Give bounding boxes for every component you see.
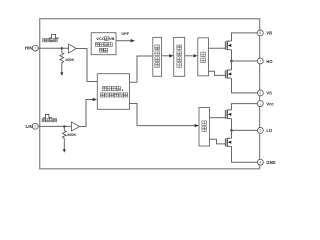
svg-text:GND: GND <box>266 160 275 165</box>
block: VCC/VB undervoltage shutdown protection <box>91 33 116 55</box>
arrow into lock box (LIN path) <box>93 98 97 101</box>
wire pulse-filter to driver <box>185 55 193 57</box>
rail Q3 source to LO node <box>231 119 233 131</box>
ground symbol (R2) <box>63 149 66 152</box>
transistor Q1 (HO upper) <box>224 41 226 50</box>
pin 8 circle (VB) <box>257 30 263 36</box>
svg-text:4: 4 <box>259 161 261 165</box>
label 死区时间电路 line2 <box>100 93 104 97</box>
pin 4 circle (GND) <box>257 159 263 165</box>
svg-text:200K: 200K <box>67 133 76 137</box>
IC outer boundary box <box>40 19 260 169</box>
svg-text:7: 7 <box>259 59 261 63</box>
svg-text:VCC: VCC <box>96 36 105 41</box>
transistor Q4 (LO lower) <box>224 138 226 146</box>
wire Q3 drain to Vcc <box>232 104 258 110</box>
svg-text:OFF: OFF <box>121 31 129 36</box>
comma after line1 <box>122 90 123 91</box>
wire driver to Q4 gate <box>210 139 226 144</box>
svg-text:5: 5 <box>259 129 261 133</box>
label 脉冲滤波 <box>177 45 182 50</box>
block: high-side driver 驱动 <box>198 38 209 76</box>
wire Q2 source to VS <box>232 78 258 93</box>
svg-text:LIN: LIN <box>26 124 33 129</box>
node junction LIN/R2 <box>63 125 65 127</box>
OFF arrowhead <box>131 39 135 42</box>
logic input pulse symbol (HIN) <box>49 34 59 38</box>
label 闭锁电路 line1 <box>103 87 107 91</box>
svg-text:VB: VB <box>266 31 272 36</box>
svg-text:6: 6 <box>259 91 261 95</box>
label 逻辑输入 (HIN) <box>43 39 46 42</box>
block: pulse filter 脉冲滤波 <box>174 37 185 76</box>
wire lock box to low-side driver <box>130 104 195 126</box>
wire LO node to pin <box>232 129 258 131</box>
svg-text:Vcc: Vcc <box>266 101 274 106</box>
pin 1 circle (Vcc) <box>257 101 263 107</box>
wire lock box to level shifter <box>130 56 153 82</box>
svg-text:VB: VB <box>109 36 115 41</box>
wire HO node to pin <box>232 60 258 62</box>
wire driver to Q2 gate <box>209 71 226 75</box>
block: latch and dead-time circuit <box>97 74 129 110</box>
svg-text:2: 2 <box>34 46 36 50</box>
label 驱动 (low side) <box>202 121 207 126</box>
pin 7 circle (HO) <box>257 58 263 64</box>
ground symbol (R1) <box>60 72 63 76</box>
transistor Q3 (LO upper) <box>224 110 226 119</box>
wire LIN pin to junction <box>38 125 71 127</box>
resistor R1 200K pulldown <box>60 48 64 72</box>
rail HO node to Q2 drain <box>231 61 233 70</box>
pin 5 circle (LO) <box>257 127 263 133</box>
wire Q1 drain to VB <box>232 33 258 41</box>
svg-text:HIN: HIN <box>25 46 33 51</box>
arrowhead into pulse-filter <box>169 54 173 57</box>
resistor R2 200K pulldown <box>62 126 66 149</box>
rail Q1 source to HO node <box>231 50 233 61</box>
node LO <box>230 129 233 132</box>
svg-text:3: 3 <box>34 125 36 129</box>
wire level-shift to pulse-filter <box>162 55 170 57</box>
svg-text:8: 8 <box>259 31 261 35</box>
label 逻辑输入 (LIN) <box>42 119 45 122</box>
node junction HIN/R1 <box>61 47 63 49</box>
pin 2 circle (HIN) <box>32 45 38 51</box>
rail LO node to Q4 drain <box>231 130 233 138</box>
block: level shift 电平位移 <box>153 37 162 76</box>
svg-text:1: 1 <box>259 102 261 106</box>
svg-text:VS: VS <box>266 91 272 96</box>
transistor Q2 (HO lower) <box>224 70 226 78</box>
label 驱动 (high side) <box>201 52 206 57</box>
label 电平位移 <box>155 45 160 50</box>
logic input pulse symbol (LIN) <box>43 114 52 117</box>
svg-text:HO: HO <box>266 59 273 64</box>
wire Q4 source to GND <box>232 146 258 162</box>
label 欠压关断 line2 <box>95 43 99 47</box>
wire driver to Q3 gate <box>210 117 226 119</box>
block: low-side driver 驱动 <box>199 108 210 147</box>
pin 6 circle (VS) <box>257 90 263 96</box>
pin 3 circle (LIN) <box>32 123 38 129</box>
svg-text:LO: LO <box>266 128 273 133</box>
buffer U2 (LIN schmitt) <box>71 122 79 131</box>
arrow into low-side driver <box>195 124 199 127</box>
OFF signal wire <box>116 40 131 42</box>
wire driver to Q1 gate <box>209 47 226 49</box>
wire U2 output to lock box <box>80 100 93 127</box>
wire U1 output to lock box <box>76 49 97 82</box>
node HO <box>230 60 233 63</box>
label 保护 line3 <box>99 48 103 52</box>
wire HIN pin to junction <box>38 47 68 49</box>
svg-text:200K: 200K <box>65 58 74 62</box>
arrowhead into high-side driver <box>193 54 197 57</box>
buffer U1 (HIN schmitt) <box>69 44 77 53</box>
